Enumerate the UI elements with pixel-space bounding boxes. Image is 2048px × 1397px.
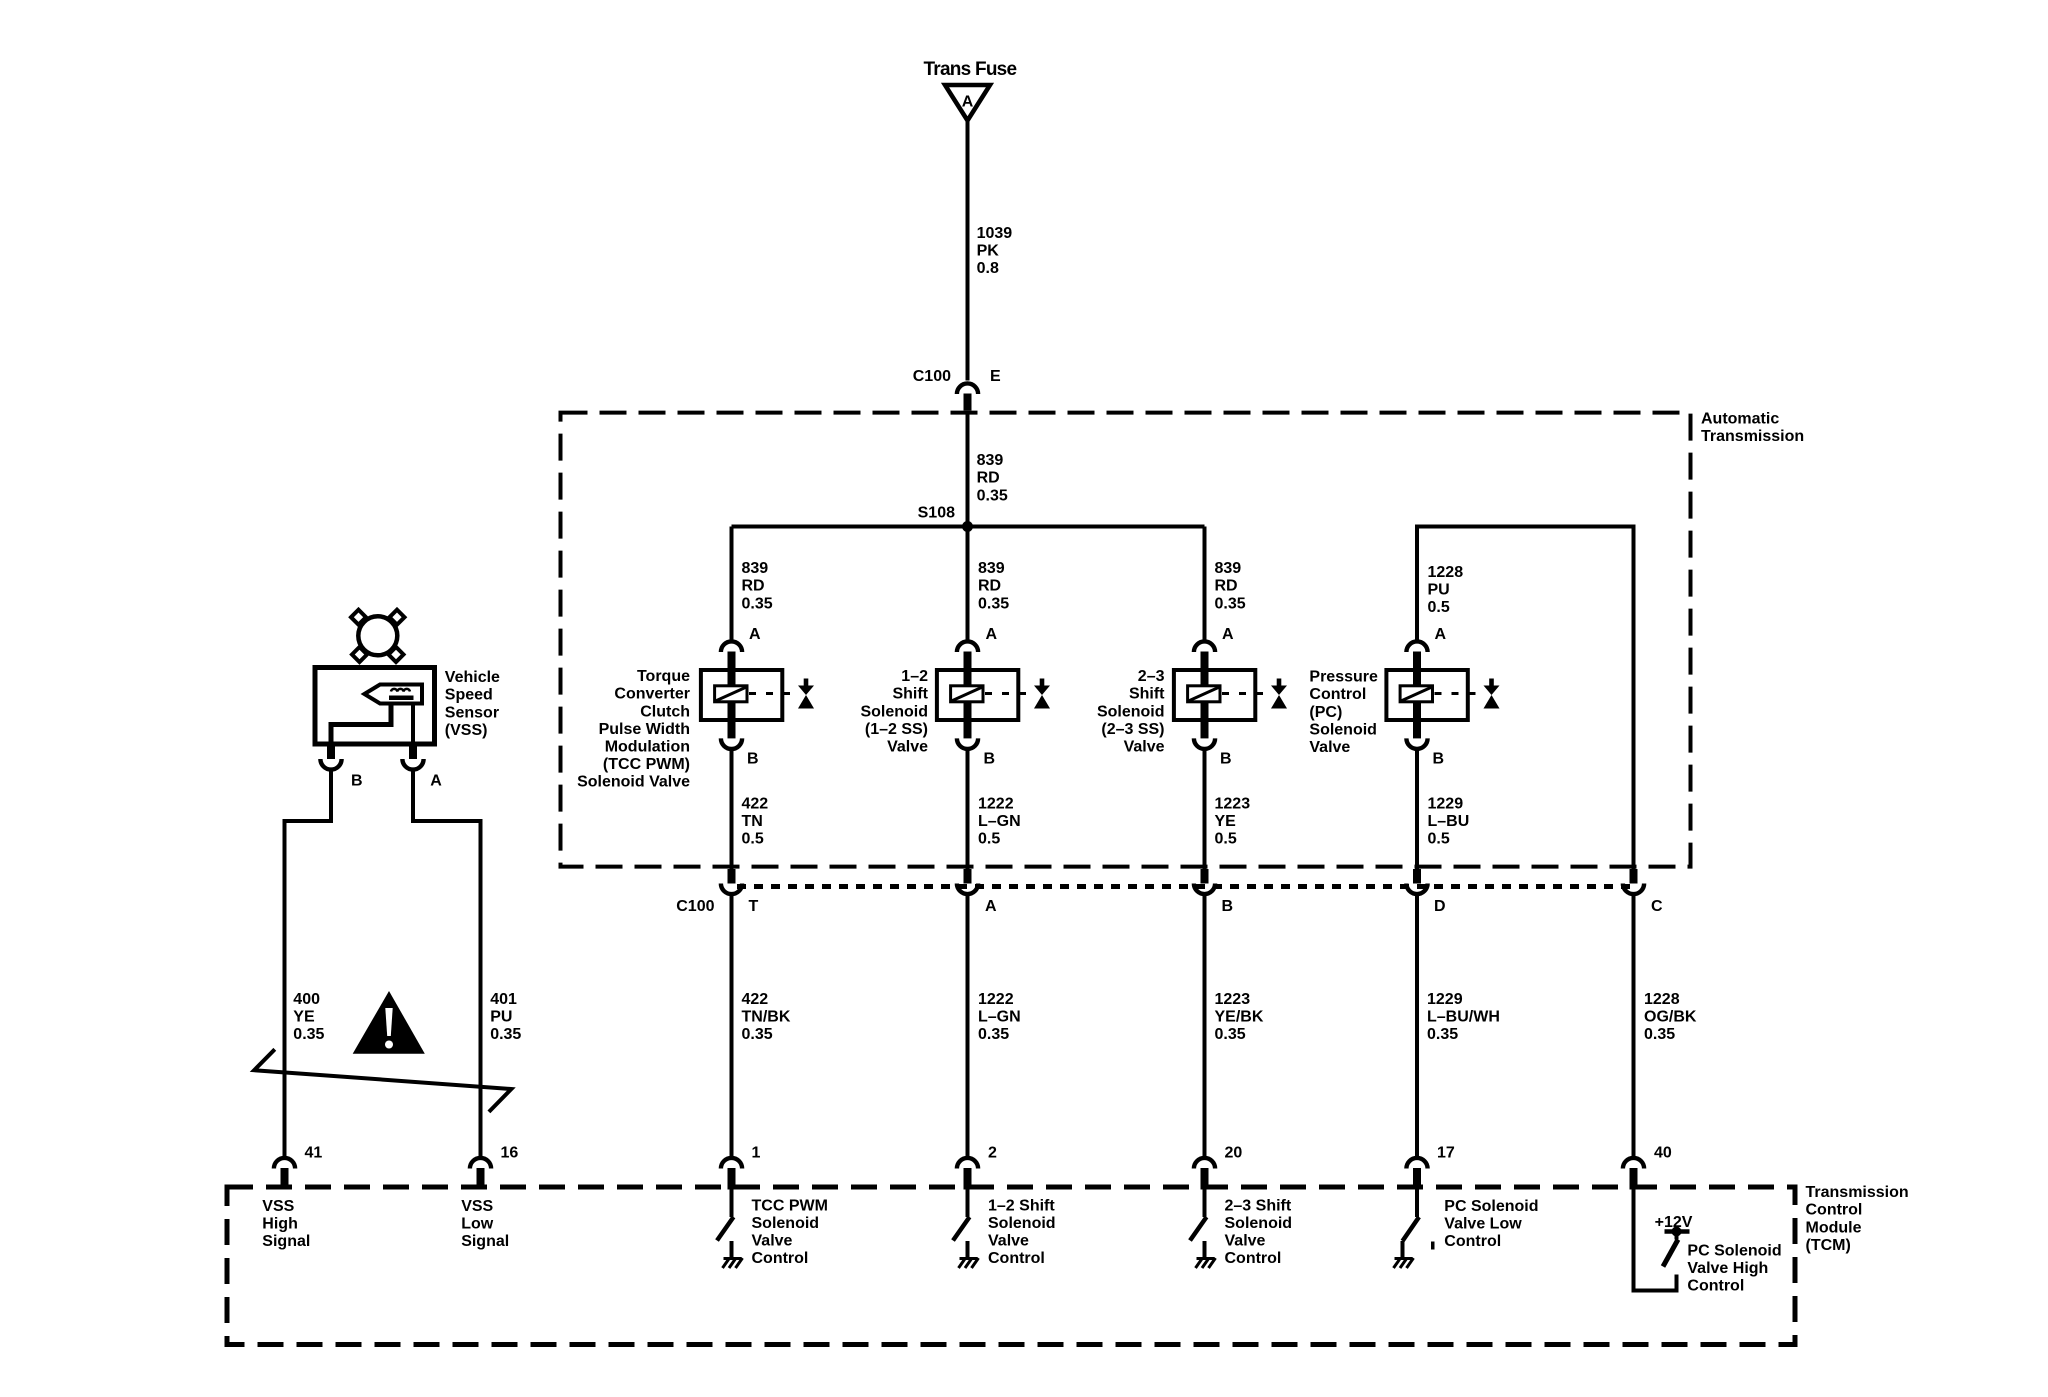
TCM pin 17 [1406, 1158, 1427, 1190]
svg-text:L–GN: L–GN [978, 813, 1021, 830]
svg-text:Torque: Torque [637, 668, 690, 685]
ground (chassis) for TCC PWM [723, 1258, 743, 1268]
svg-text:(PC): (PC) [1309, 704, 1342, 721]
svg-text:Shift: Shift [892, 686, 928, 703]
svg-text:Solenoid: Solenoid [1225, 1215, 1293, 1232]
svg-text:Control: Control [1687, 1278, 1744, 1295]
svg-text:VSS: VSS [262, 1198, 294, 1215]
svg-text:Clutch: Clutch [640, 703, 690, 720]
vehicle speed sensor VSS: gear icon [351, 610, 405, 662]
+12V high-side driver symbol [1663, 1227, 1690, 1267]
connector C100 body (dotted line) [737, 884, 1630, 889]
svg-text:16: 16 [501, 1145, 519, 1162]
twisted pair indicator [254, 1049, 511, 1112]
vehicle speed sensor VSS: body [315, 668, 435, 745]
svg-text:2–3 Shift: 2–3 Shift [1225, 1197, 1292, 1214]
svg-text:Sensor: Sensor [445, 704, 499, 721]
TCM pin 20 [1194, 1158, 1215, 1190]
label 2-3 Shift Solenoid Valve [1097, 668, 1165, 755]
TCM pin 1 [721, 1158, 742, 1190]
svg-text:TN/BK: TN/BK [742, 1009, 791, 1026]
svg-text:A: A [749, 626, 761, 643]
svg-text:PC Solenoid: PC Solenoid [1444, 1198, 1538, 1215]
svg-text:1223: 1223 [1215, 795, 1251, 812]
svg-text:(TCM): (TCM) [1806, 1237, 1851, 1254]
svg-text:A: A [962, 93, 974, 110]
1-2 shift solenoid valve: pin A connector [957, 641, 978, 670]
svg-text:Valve High: Valve High [1687, 1260, 1768, 1277]
connector C100 pin E [913, 368, 1001, 410]
TCM pin 16 [470, 1158, 491, 1190]
svg-text:PU: PU [490, 1009, 512, 1026]
svg-text:Solenoid Valve: Solenoid Valve [577, 774, 690, 791]
svg-text:RD: RD [742, 578, 765, 595]
svg-text:0.35: 0.35 [977, 487, 1008, 504]
svg-text:2: 2 [988, 1145, 997, 1162]
svg-text:Solenoid: Solenoid [752, 1215, 820, 1232]
TCM driver switch for PC solenoid low [1403, 1190, 1420, 1259]
svg-text:0.35: 0.35 [742, 1026, 773, 1043]
wire: S108 horizontal bus [732, 525, 1205, 529]
svg-text:A: A [1435, 626, 1447, 643]
wire from TCM pin 40 to high-side driver [1634, 1190, 1677, 1291]
C100 pin A [957, 869, 978, 894]
2-3 shift solenoid valve: pin B connector [1194, 720, 1215, 749]
label Automatic Transmission [1701, 410, 1804, 445]
svg-text:RD: RD [977, 470, 1000, 487]
svg-text:L–GN: L–GN [978, 1009, 1021, 1026]
svg-text:TN: TN [742, 813, 763, 830]
svg-text:B: B [351, 772, 363, 789]
2-3 shift solenoid valve: body [1174, 670, 1255, 720]
wire label 1228 PU 0.5 [1428, 564, 1464, 616]
TCM driver switch for TCC PWM [717, 1190, 734, 1259]
1-2 shift solenoid valve: pin B connector [957, 720, 978, 749]
pressure control solenoid valve: dashed link to valve [1435, 692, 1484, 695]
wire 1228 OG/BK 0.35 [1632, 896, 1636, 1157]
label VSS High Signal [262, 1198, 310, 1250]
2-3 shift solenoid valve: dashed link to valve [1222, 692, 1271, 695]
ground (chassis) for PC solenoid low [1394, 1258, 1414, 1268]
TCC PWM solenoid valve: pin A connector [721, 641, 742, 670]
svg-text:S108: S108 [918, 505, 955, 522]
svg-text:Low: Low [461, 1216, 494, 1233]
svg-text:L–BU: L–BU [1428, 813, 1470, 830]
svg-text:0.5: 0.5 [1215, 831, 1237, 848]
label 1-2 Shift Solenoid Valve [860, 668, 928, 755]
wire branch 839 RD down at x=967.5 [966, 527, 970, 642]
svg-text:Valve: Valve [752, 1233, 793, 1250]
warning triangle symbol [353, 991, 425, 1054]
wire 1229 L-BU/WH 0.35 [1415, 896, 1419, 1157]
label Torque Converter Clutch PWM Solenoid Valve [577, 668, 690, 791]
ground (chassis) for 1-2 shift [959, 1258, 979, 1268]
svg-text:Valve: Valve [1309, 739, 1350, 756]
svg-text:C100: C100 [676, 898, 714, 915]
svg-text:C100: C100 [913, 368, 951, 385]
wire 1222 L-GN 0.5 [966, 751, 970, 870]
svg-text:C: C [1651, 898, 1663, 915]
svg-text:Control: Control [988, 1250, 1045, 1267]
label 2-3 Shift Solenoid Valve Control [1225, 1197, 1293, 1267]
svg-text:Control: Control [1309, 686, 1366, 703]
svg-text:1–2: 1–2 [901, 668, 928, 685]
svg-text:839: 839 [977, 452, 1004, 469]
wire label 1039 PK 0.8 [977, 225, 1013, 277]
TCC PWM solenoid valve: pin B connector [721, 720, 742, 749]
svg-text:B: B [747, 751, 759, 768]
wire 1229 L-BU 0.5 [1415, 751, 1419, 870]
TCM pin 41 [274, 1158, 295, 1190]
svg-text:Valve: Valve [1124, 739, 1165, 756]
C100 pin B [1194, 869, 1215, 894]
svg-text:T: T [749, 898, 759, 915]
label Vehicle Speed Sensor (VSS) [445, 669, 500, 739]
svg-text:D: D [1434, 898, 1446, 915]
svg-text:839: 839 [1215, 560, 1242, 577]
svg-text:Speed: Speed [445, 687, 493, 704]
TCM driver switch for 1-2 shift [953, 1190, 970, 1259]
svg-text:20: 20 [1225, 1145, 1243, 1162]
svg-text:401: 401 [490, 991, 517, 1008]
svg-text:0.35: 0.35 [293, 1026, 324, 1043]
wire label 839 RD 0.35 [977, 452, 1008, 504]
svg-text:1223: 1223 [1215, 991, 1251, 1008]
wire 1222 L-GN 0.35 [966, 896, 970, 1157]
C100 pin D [1406, 869, 1427, 894]
svg-text:0.5: 0.5 [1428, 831, 1450, 848]
C100 pin T [721, 869, 742, 894]
svg-text:Modulation: Modulation [605, 739, 690, 756]
label VSS Low Signal [461, 1198, 509, 1250]
svg-text:1222: 1222 [978, 795, 1014, 812]
svg-text:B: B [1433, 751, 1445, 768]
wire 1039 PK from fuse to C100 pin E [966, 120, 970, 381]
svg-text:1228: 1228 [1644, 991, 1680, 1008]
svg-text:YE: YE [293, 1009, 315, 1026]
svg-text:Signal: Signal [262, 1233, 310, 1250]
svg-text:1039: 1039 [977, 225, 1013, 242]
svg-text:0.35: 0.35 [1215, 1026, 1246, 1043]
svg-text:PU: PU [1428, 581, 1450, 598]
svg-text:L–BU/WH: L–BU/WH [1427, 1009, 1500, 1026]
svg-text:Vehicle: Vehicle [445, 669, 500, 686]
svg-text:0.35: 0.35 [978, 1026, 1009, 1043]
fuse symbol "Trans Fuse A" [924, 59, 1017, 121]
TCM pin 40 [1623, 1158, 1644, 1190]
svg-text:+12V: +12V [1655, 1214, 1693, 1231]
svg-text:Solenoid: Solenoid [860, 703, 928, 720]
svg-text:422: 422 [742, 795, 769, 812]
svg-text:1228: 1228 [1428, 564, 1464, 581]
svg-text:Trans Fuse: Trans Fuse [924, 59, 1017, 80]
svg-text:1–2 Shift: 1–2 Shift [988, 1197, 1055, 1214]
2-3 shift solenoid valve: valve symbol [1271, 679, 1287, 709]
svg-text:0.35: 0.35 [1644, 1026, 1675, 1043]
svg-text:Valve: Valve [1225, 1233, 1266, 1250]
svg-text:TCC PWM: TCC PWM [752, 1197, 828, 1214]
wire 1228 PU loop: from TCM pin C up and over to PC solenoid pin A [1417, 527, 1634, 870]
pressure control solenoid valve: pin B connector [1406, 720, 1427, 749]
svg-text:40: 40 [1654, 1145, 1672, 1162]
svg-text:0.5: 0.5 [978, 831, 1000, 848]
svg-text:Pulse Width: Pulse Width [599, 721, 690, 738]
svg-text:YE: YE [1215, 813, 1237, 830]
tick mark near pin 17 [1431, 1242, 1435, 1250]
Automatic Transmission boundary (dashed) [561, 413, 1691, 867]
TCM pin 2 [957, 1158, 978, 1190]
svg-text:Control: Control [1806, 1202, 1863, 1219]
svg-text:Solenoid: Solenoid [1309, 721, 1377, 738]
svg-text:Control: Control [1444, 1233, 1501, 1250]
wire 401 PU from VSS A to TCM pin 16 [413, 771, 481, 1156]
wire 400 YE from VSS B to TCM pin 41 [285, 771, 332, 1156]
TCC PWM solenoid valve: dashed link to valve [749, 692, 798, 695]
svg-text:1229: 1229 [1427, 991, 1463, 1008]
svg-text:(VSS): (VSS) [445, 722, 488, 739]
svg-text:A: A [430, 772, 442, 789]
svg-text:1229: 1229 [1428, 795, 1464, 812]
svg-text:0.35: 0.35 [742, 595, 773, 612]
svg-text:422: 422 [742, 991, 769, 1008]
svg-text:A: A [986, 626, 998, 643]
svg-text:(2–3 SS): (2–3 SS) [1101, 721, 1164, 738]
VSS pin A connector [402, 744, 423, 770]
svg-text:1: 1 [752, 1145, 761, 1162]
label TCC PWM Solenoid Valve Control [752, 1197, 828, 1267]
ground (chassis) for 2-3 shift [1196, 1258, 1216, 1268]
svg-text:0.35: 0.35 [978, 595, 1009, 612]
wire labels 839 RD 0.35 on three branches [742, 560, 773, 612]
1-2 shift solenoid valve: body [937, 670, 1018, 720]
svg-text:Shift: Shift [1129, 686, 1165, 703]
svg-text:0.35: 0.35 [1427, 1026, 1458, 1043]
svg-text:2–3: 2–3 [1138, 668, 1165, 685]
TCC PWM solenoid valve: body [701, 670, 782, 720]
label 1-2 Shift Solenoid Valve Control [988, 1197, 1056, 1267]
pressure control solenoid valve: valve symbol [1484, 679, 1500, 709]
svg-text:Transmission: Transmission [1806, 1184, 1909, 1201]
label PC Solenoid Valve Low Control [1444, 1198, 1538, 1250]
wire 1223 YE 0.5 [1203, 751, 1207, 870]
svg-text:B: B [1220, 751, 1232, 768]
splice S108 junction dot [962, 521, 973, 532]
svg-text:1222: 1222 [978, 991, 1014, 1008]
svg-text:OG/BK: OG/BK [1644, 1009, 1697, 1026]
svg-text:Converter: Converter [614, 686, 690, 703]
svg-text:Module: Module [1806, 1219, 1862, 1236]
svg-text:17: 17 [1437, 1145, 1455, 1162]
svg-text:Valve: Valve [887, 739, 928, 756]
svg-text:(1–2 SS): (1–2 SS) [865, 721, 928, 738]
svg-text:400: 400 [293, 991, 320, 1008]
svg-text:41: 41 [305, 1145, 323, 1162]
1-2 shift solenoid valve: valve symbol [1034, 679, 1050, 709]
svg-text:0.5: 0.5 [1428, 599, 1450, 616]
wire 1223 YE/BK 0.35 [1203, 896, 1207, 1157]
svg-text:Valve: Valve [988, 1233, 1029, 1250]
wire 422 TN 0.5 [730, 751, 734, 870]
svg-text:Transmission: Transmission [1701, 428, 1804, 445]
pressure control solenoid valve: pin A connector [1406, 641, 1427, 670]
svg-text:High: High [262, 1216, 298, 1233]
wire 422 TN/BK 0.35 [730, 896, 734, 1157]
wire 839 RD from C100 E to splice S108 [966, 412, 970, 527]
label PC Solenoid Valve High Control [1687, 1242, 1781, 1294]
svg-text:VSS: VSS [461, 1198, 493, 1215]
svg-text:A: A [985, 898, 997, 915]
svg-text:0.35: 0.35 [490, 1026, 521, 1043]
wire branch 839 RD down at x=1204.5 [1203, 527, 1207, 642]
label Pressure Control (PC) Solenoid Valve [1309, 669, 1378, 756]
wire branch 839 RD down at x=731.5 [730, 527, 734, 642]
1-2 shift solenoid valve: dashed link to valve [985, 692, 1034, 695]
svg-text:0.5: 0.5 [742, 831, 764, 848]
svg-text:RD: RD [1215, 578, 1238, 595]
VSS pin B connector [320, 744, 341, 770]
svg-text:A: A [1222, 626, 1234, 643]
svg-text:839: 839 [978, 560, 1005, 577]
label Transmission Control Module (TCM) [1806, 1184, 1909, 1254]
pressure control solenoid valve: body [1386, 670, 1467, 720]
svg-text:Pressure: Pressure [1309, 669, 1378, 686]
svg-text:Control: Control [752, 1250, 809, 1267]
svg-text:B: B [984, 751, 996, 768]
svg-text:RD: RD [978, 578, 1001, 595]
svg-text:Signal: Signal [461, 1233, 509, 1250]
svg-text:Solenoid: Solenoid [988, 1215, 1056, 1232]
svg-text:Automatic: Automatic [1701, 410, 1779, 427]
svg-text:Valve Low: Valve Low [1444, 1216, 1522, 1233]
svg-text:Control: Control [1225, 1250, 1282, 1267]
Transmission Control Module boundary (dashed) [227, 1187, 1795, 1345]
svg-text:E: E [990, 368, 1001, 385]
svg-text:PC Solenoid: PC Solenoid [1687, 1242, 1781, 1259]
svg-text:0.35: 0.35 [1215, 595, 1246, 612]
svg-text:0.8: 0.8 [977, 260, 999, 277]
svg-text:839: 839 [742, 560, 769, 577]
2-3 shift solenoid valve: pin A connector [1194, 641, 1215, 670]
svg-text:PK: PK [977, 242, 1000, 259]
C100 pin C [1623, 869, 1644, 894]
svg-text:Solenoid: Solenoid [1097, 703, 1165, 720]
TCC PWM solenoid valve: valve symbol [798, 679, 814, 709]
svg-text:(TCC PWM): (TCC PWM) [603, 756, 690, 773]
TCM driver switch for 2-3 shift [1190, 1190, 1207, 1259]
svg-text:B: B [1222, 898, 1234, 915]
svg-text:YE/BK: YE/BK [1215, 1009, 1264, 1026]
